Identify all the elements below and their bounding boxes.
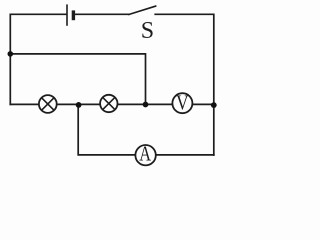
battery B1 short negative plate (72, 10, 75, 20)
lamp L2 (100, 95, 117, 112)
svg-text:A: A (139, 142, 151, 166)
battery B1 long positive plate (66, 4, 68, 25)
ammeter A (135, 142, 155, 166)
wire lamp row (10, 103, 214, 105)
lamp L1 (39, 95, 57, 113)
node D junction dot on right rail (211, 102, 217, 108)
node C junction dot shunt meets lamp row (143, 102, 149, 108)
wire bottom ammeter branch (78, 105, 214, 155)
voltmeter V (172, 91, 192, 115)
switch S blade (129, 6, 156, 14)
wire switch to right rail (155, 14, 214, 155)
node B junction dot between lamps (76, 102, 82, 108)
wire battery to switch (75, 13, 129, 15)
wire top-left from left rail to battery (10, 14, 66, 104)
svg-text:S: S (141, 18, 154, 44)
wire middle shunt from node A to vertical drop (10, 54, 145, 105)
svg-text:V: V (176, 91, 189, 115)
node A junction dot on left rail (8, 51, 14, 57)
